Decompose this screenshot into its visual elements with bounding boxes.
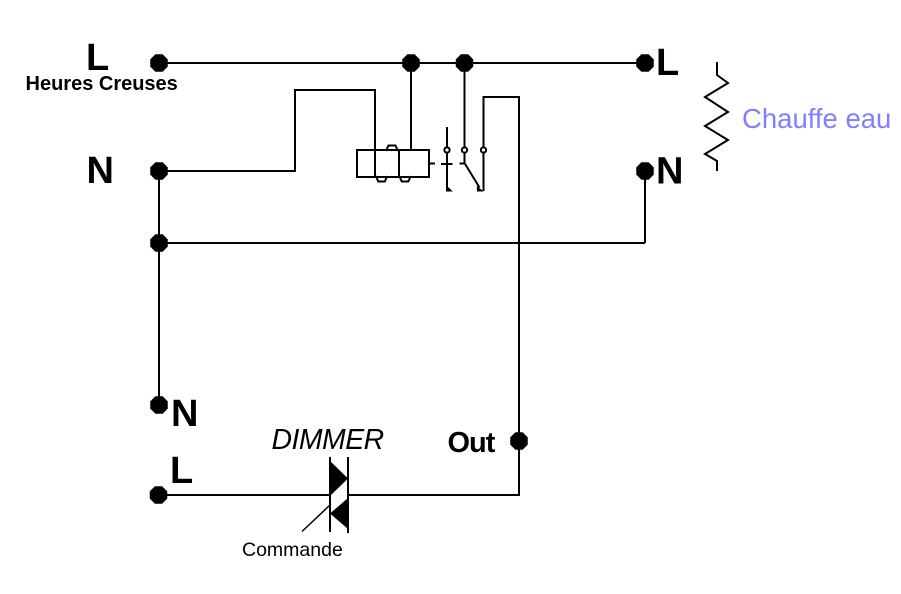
svg-text:Chauffe eau: Chauffe eau	[742, 103, 891, 134]
svg-text:N: N	[171, 393, 198, 435]
svg-text:Out: Out	[448, 427, 496, 459]
svg-text:N: N	[656, 151, 683, 193]
svg-text:L: L	[656, 42, 679, 84]
svg-text:Commande: Commande	[242, 539, 343, 561]
svg-text:N: N	[87, 150, 114, 192]
svg-text:DIMMER: DIMMER	[272, 424, 384, 456]
svg-text:L: L	[170, 450, 193, 492]
svg-text:Heures Creuses: Heures Creuses	[26, 73, 178, 95]
